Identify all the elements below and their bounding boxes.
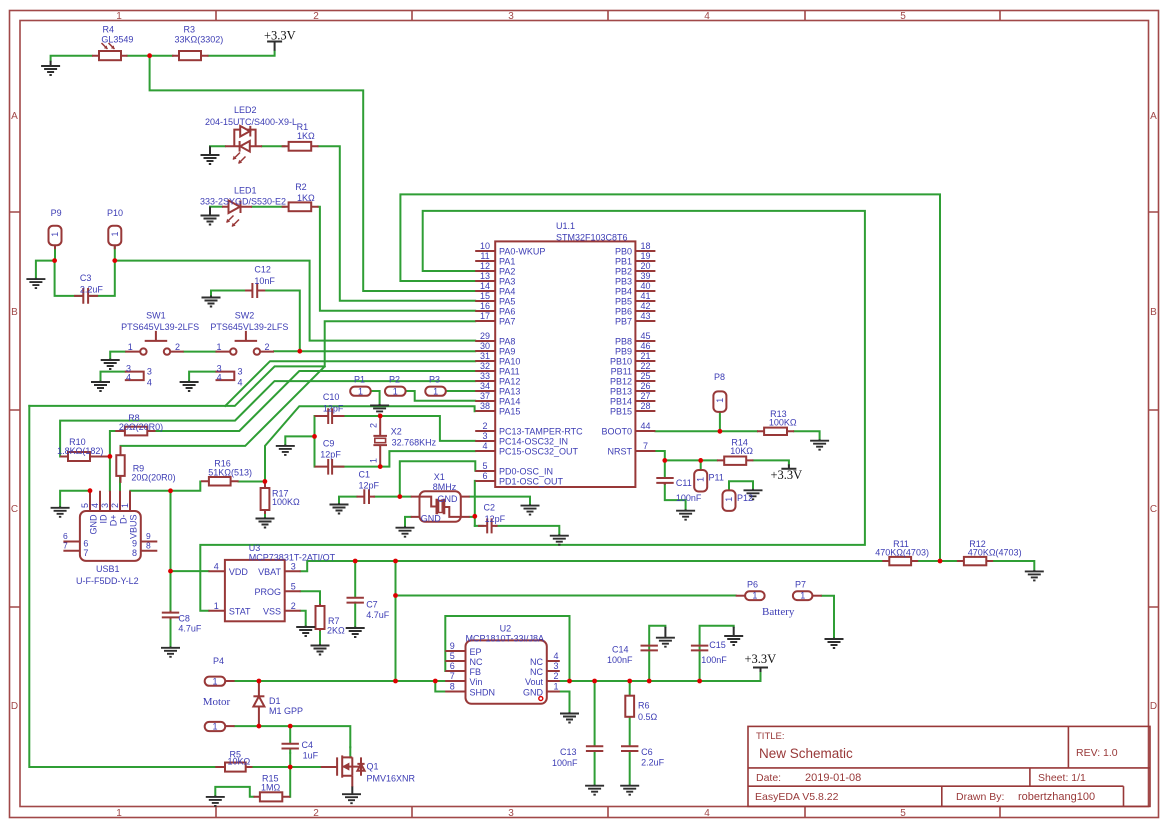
wire Q1 drain riser [349, 747, 351, 757]
wire PA3 wrap to R11 R12 junction [400, 194, 940, 561]
svg-text:8MHz: 8MHz [433, 482, 457, 492]
svg-text:P1: P1 [354, 375, 365, 385]
resistor R15 [254, 792, 291, 801]
wire LED2 ground side [210, 145, 225, 147]
svg-text:C11: C11 [676, 478, 692, 488]
wire P10 to PA8 [115, 261, 475, 341]
svg-text:PA7: PA7 [499, 317, 515, 327]
svg-text:U1.1: U1.1 [556, 221, 575, 231]
resistor R5 [215, 763, 252, 772]
svg-text:100nF: 100nF [607, 655, 633, 665]
frame column numbers top [116, 11, 906, 22]
svg-text:+3.3V: +3.3V [771, 468, 803, 482]
svg-text:1: 1 [116, 11, 122, 22]
wire LED2 to R1 [262, 145, 285, 147]
wire USB VBUS to U3 VDD C8 [130, 491, 170, 613]
wire USB GND pin to ground [60, 491, 90, 507]
wire P1 to ground [371, 391, 380, 405]
wire net PA7 fan [29, 321, 475, 406]
svg-text:20Ω(20R0): 20Ω(20R0) [131, 473, 175, 483]
svg-text:PB2: PB2 [615, 267, 632, 277]
connector P2 [385, 387, 406, 396]
svg-text:1: 1 [752, 591, 757, 601]
op-amp U1 STM32F103C8T6 body [495, 221, 635, 487]
wire C1 left ground [339, 497, 357, 504]
wire LED1 ground side [210, 206, 222, 208]
resistor R2 [282, 202, 319, 211]
svg-text:7: 7 [83, 548, 88, 558]
svg-text:TITLE:: TITLE: [756, 731, 785, 742]
wire R6 to C6 [629, 717, 631, 745]
svg-text:11: 11 [480, 251, 489, 261]
svg-text:PTS645VL39-2LFS: PTS645VL39-2LFS [121, 322, 199, 332]
svg-text:PA13: PA13 [499, 387, 520, 397]
svg-text:30: 30 [480, 341, 490, 351]
svg-text:PB15: PB15 [610, 407, 632, 417]
svg-text:1KΩ: 1KΩ [297, 193, 315, 203]
labels U2 area [450, 580, 806, 768]
connector P1 [350, 387, 371, 396]
svg-text:4: 4 [214, 561, 219, 571]
wire C6 bottom to ground [629, 752, 631, 786]
wire C9 net X2 pin1 to PC15 [332, 451, 475, 467]
wire C10 net X2 pin2 to PC14 [332, 416, 475, 441]
svg-text:6: 6 [83, 539, 88, 549]
power +3.3V right NRST [771, 464, 803, 482]
svg-text:PA15: PA15 [499, 407, 520, 417]
wire P6 battery tap [396, 595, 736, 597]
svg-text:51KΩ(513): 51KΩ(513) [208, 467, 252, 477]
wire C14 top to ground [649, 626, 665, 681]
rotated USB pin names [89, 514, 139, 539]
svg-text:Drawn By:: Drawn By: [956, 791, 1004, 803]
svg-text:REV: 1.0: REV: 1.0 [1076, 747, 1118, 759]
svg-text:R4: R4 [103, 25, 115, 35]
svg-text:4: 4 [217, 373, 222, 383]
svg-text:SW2: SW2 [235, 310, 255, 320]
svg-text:1uF: 1uF [303, 751, 319, 761]
svg-text:D1: D1 [269, 696, 281, 706]
svg-text:470KΩ(4703): 470KΩ(4703) [968, 548, 1022, 558]
svg-text:204-15UTC/S400-X9-L: 204-15UTC/S400-X9-L [205, 117, 297, 127]
wire R17 bottom to ground [264, 510, 266, 518]
svg-text:Vout: Vout [525, 677, 544, 687]
svg-text:2: 2 [482, 421, 487, 431]
svg-text:1: 1 [358, 386, 363, 396]
svg-text:1MΩ: 1MΩ [261, 782, 281, 792]
svg-text:P6: P6 [747, 580, 758, 590]
svg-text:C15: C15 [709, 640, 726, 650]
svg-text:1: 1 [554, 682, 559, 692]
IC U2 MCP1810 body [445, 640, 560, 703]
svg-text:2: 2 [175, 342, 180, 352]
connector P9 [49, 226, 62, 250]
svg-text:B: B [1150, 307, 1157, 318]
svg-text:PB12: PB12 [610, 377, 632, 387]
resistor R10 [60, 452, 110, 461]
svg-text:10nF: 10nF [254, 276, 275, 286]
wire LDR junction down to PA4 [150, 56, 476, 291]
crystal X2 [373, 416, 387, 467]
svg-text:NC: NC [470, 657, 483, 667]
svg-text:New Schematic: New Schematic [759, 746, 853, 761]
svg-text:4: 4 [704, 808, 710, 819]
rotated USB pin numbers [80, 503, 130, 508]
svg-text:X2: X2 [391, 426, 402, 436]
resistor R1 [282, 142, 319, 151]
svg-text:PB6: PB6 [615, 307, 632, 317]
wire C1 right to X1 left and PD0 [375, 461, 476, 496]
svg-text:NC: NC [530, 667, 543, 677]
svg-text:PA10: PA10 [499, 357, 520, 367]
svg-text:PA3: PA3 [499, 277, 515, 287]
svg-text:8: 8 [132, 548, 137, 558]
labels USB and U3 [63, 531, 390, 636]
resistor R4 photoresistor [92, 43, 128, 60]
svg-text:Q1: Q1 [367, 761, 379, 771]
svg-text:PB8: PB8 [615, 337, 632, 347]
svg-text:27: 27 [640, 391, 650, 401]
wire R5 right to Q1 gate [253, 766, 321, 768]
svg-text:1KΩ: 1KΩ [297, 131, 315, 141]
title block [748, 726, 1150, 806]
resistor R16 [201, 477, 239, 486]
connector P7 [793, 591, 822, 600]
resistor R6 [625, 696, 634, 717]
power +3.3V top left [264, 29, 296, 51]
svg-text:STM32F103C8T6: STM32F103C8T6 [556, 233, 628, 243]
capacitor C1 [357, 489, 376, 504]
svg-text:A: A [11, 111, 18, 122]
svg-text:C4: C4 [302, 740, 314, 750]
svg-text:4: 4 [554, 651, 559, 661]
svg-text:6: 6 [63, 531, 68, 541]
svg-text:P10: P10 [107, 208, 123, 218]
svg-text:C10: C10 [323, 392, 340, 402]
svg-text:2: 2 [369, 423, 379, 428]
svg-text:12pF: 12pF [323, 404, 344, 414]
svg-text:U-F-F5DD-Y-L2: U-F-F5DD-Y-L2 [76, 576, 139, 586]
svg-text:ID: ID [99, 514, 109, 524]
svg-text:D: D [1150, 701, 1157, 712]
svg-text:1: 1 [212, 722, 217, 732]
svg-text:32: 32 [480, 361, 490, 371]
svg-text:34: 34 [480, 381, 490, 391]
svg-text:1: 1 [800, 591, 805, 601]
svg-text:P11: P11 [709, 472, 724, 482]
svg-text:C: C [1150, 504, 1157, 515]
svg-text:100KΩ: 100KΩ [272, 497, 300, 507]
capacitor C12 [245, 283, 265, 298]
capacitor C7 [347, 598, 364, 603]
svg-text:2.2uF: 2.2uF [80, 284, 104, 294]
svg-text:5: 5 [450, 651, 455, 661]
svg-text:NRST: NRST [608, 447, 633, 457]
svg-text:2: 2 [313, 11, 319, 22]
svg-text:C14: C14 [612, 644, 629, 654]
svg-text:A: A [1150, 111, 1157, 122]
wire C10 C9 left side with ground tap [285, 416, 314, 467]
labels top left [51, 25, 315, 388]
resistor R12 [957, 557, 993, 565]
resistor R3 [172, 51, 209, 60]
wire R14 right to +3.3V [753, 460, 789, 464]
svg-text:2.2uF: 2.2uF [641, 757, 665, 767]
capacitor C15 [691, 646, 708, 651]
svg-text:2: 2 [313, 808, 319, 819]
svg-text:2: 2 [265, 342, 270, 352]
wire U3 VBAT up to divider rail [301, 561, 1035, 571]
wire P8 stub down [719, 412, 721, 431]
svg-text:100nF: 100nF [701, 655, 727, 665]
svg-text:+3.3V: +3.3V [745, 652, 777, 666]
svg-text:D: D [11, 701, 18, 712]
LED LED2 dual [225, 126, 262, 164]
wire R16 right to R17 junction [239, 481, 266, 483]
svg-text:PA6: PA6 [499, 307, 515, 317]
wire SW1 pins34 to ground [101, 372, 125, 381]
svg-text:P12: P12 [737, 493, 753, 503]
wire R8 left down to USB D+ [110, 431, 115, 491]
wire C13 bottom to ground [594, 752, 596, 786]
svg-text:31: 31 [480, 351, 490, 361]
LED LED1 [222, 200, 252, 226]
svg-text:SW1: SW1 [146, 310, 166, 320]
labels bottom left [213, 656, 416, 793]
svg-text:VBUS: VBUS [129, 515, 139, 540]
svg-text:PA2: PA2 [499, 267, 515, 277]
svg-text:13: 13 [480, 271, 490, 281]
svg-text:41: 41 [640, 291, 650, 301]
wire C3 right to P10 [91, 245, 115, 296]
svg-text:2019-01-08: 2019-01-08 [805, 772, 861, 784]
wire P11 stub up [700, 460, 702, 470]
capacitor C14 [641, 646, 658, 651]
wire SW1 pin1 to ground [110, 352, 125, 359]
svg-text:22: 22 [640, 361, 650, 371]
connector P5 [205, 722, 235, 731]
frame row ticks left [10, 212, 21, 607]
svg-text:D-: D- [119, 515, 129, 525]
wire R4 to R3 junction net [128, 55, 173, 57]
resistor R17 [261, 482, 270, 515]
svg-text:1: 1 [433, 386, 438, 396]
svg-text:VDD: VDD [229, 567, 249, 577]
wire U3 VSS to ground [301, 611, 306, 626]
wire X1 bottom left pin to ground [405, 517, 411, 527]
wire P7 to ground [822, 596, 834, 638]
svg-text:C6: C6 [641, 747, 653, 757]
svg-text:Sheet: 1/1: Sheet: 1/1 [1038, 772, 1086, 784]
svg-text:PD1-OSC_OUT: PD1-OSC_OUT [499, 477, 564, 487]
capacitor C10 [315, 408, 345, 424]
crystal X1 8MHz [411, 491, 470, 522]
svg-text:EP: EP [470, 647, 482, 657]
wire C12 left to ground [211, 291, 252, 297]
capacitor C3 [74, 288, 98, 304]
wire R1 to PA5 [319, 146, 476, 300]
wire U2 Vout to +3.3V rail [560, 672, 761, 681]
wire C11 riser [664, 460, 666, 477]
svg-text:2: 2 [291, 601, 296, 611]
wire net PA10 fan diagonal [225, 361, 475, 406]
svg-text:9: 9 [146, 531, 151, 541]
switch SW1 [125, 331, 184, 355]
svg-text:VBAT: VBAT [258, 567, 281, 577]
svg-text:6: 6 [482, 471, 487, 481]
svg-text:10: 10 [480, 241, 490, 251]
title block text [755, 731, 1118, 803]
labels right side [676, 372, 1022, 558]
svg-text:1: 1 [715, 398, 725, 403]
svg-text:12pF: 12pF [320, 449, 341, 459]
wire U2 GND to ground [560, 692, 570, 713]
wire R16 left to VBUS riser [171, 482, 201, 491]
svg-text:4: 4 [147, 378, 152, 388]
svg-text:PA9: PA9 [499, 347, 515, 357]
svg-text:32.768KHz: 32.768KHz [392, 438, 437, 448]
svg-text:1: 1 [50, 232, 60, 237]
resistor R7 [316, 604, 325, 631]
svg-text:B: B [11, 307, 18, 318]
svg-text:0.5Ω: 0.5Ω [638, 712, 658, 722]
svg-text:12pF: 12pF [485, 514, 506, 524]
svg-text:17: 17 [480, 311, 490, 321]
svg-text:3: 3 [508, 808, 514, 819]
svg-text:10KΩ: 10KΩ [228, 757, 251, 767]
connector P3 [425, 387, 446, 396]
svg-text:M1 GPP: M1 GPP [269, 706, 303, 716]
frame column numbers bottom [116, 808, 906, 819]
ground stems [36, 61, 1034, 797]
switch SW1 pins 3 4 [125, 372, 144, 381]
svg-text:7: 7 [63, 540, 68, 550]
wire net R9 fan diagonal [121, 366, 325, 446]
svg-text:LED1: LED1 [234, 186, 257, 196]
resistor R8 [115, 427, 155, 436]
svg-text:45: 45 [640, 331, 650, 341]
svg-text:40: 40 [640, 281, 650, 291]
wire C13 riser [594, 681, 596, 745]
svg-text:P4: P4 [213, 656, 224, 666]
U1 left pin names [499, 247, 583, 487]
wire SW2 pin2 to PA9 [274, 350, 475, 352]
svg-text:46: 46 [640, 341, 650, 351]
svg-text:PD0-OSC_IN: PD0-OSC_IN [499, 467, 553, 477]
svg-text:PB14: PB14 [610, 397, 632, 407]
resistor R13 [757, 428, 794, 435]
svg-text:18: 18 [640, 241, 650, 251]
capacitor C11 [656, 478, 673, 485]
wire R2 to PA6 [319, 207, 476, 311]
svg-text:4: 4 [126, 373, 131, 383]
wire P9 to ground and C3 [36, 245, 82, 296]
svg-text:1: 1 [128, 342, 133, 352]
frame column ticks bottom [216, 807, 1000, 818]
wire P4 Vin net [235, 680, 446, 682]
wire R13 right to ground [794, 431, 820, 439]
wire R7 bottom to ground [319, 629, 321, 645]
wire D1 anode to P5 net [235, 726, 351, 747]
svg-text:33: 33 [480, 371, 490, 381]
ground symbols [41, 66, 60, 75]
switch SW2 [216, 331, 275, 355]
wire net PA12 fan R10 [60, 381, 475, 456]
svg-text:5: 5 [291, 581, 296, 591]
svg-text:VSS: VSS [263, 606, 281, 616]
svg-text:C3: C3 [80, 273, 92, 283]
svg-text:43: 43 [640, 311, 650, 321]
U1 left pin numbers [480, 241, 490, 481]
svg-text:5: 5 [80, 503, 90, 508]
svg-text:42: 42 [640, 301, 650, 311]
svg-text:Vin: Vin [470, 677, 483, 687]
wire R15 left jog to ground [215, 787, 253, 797]
wire U3 VDD net [171, 570, 209, 572]
switch SW2 pins 3 4 [216, 372, 235, 381]
svg-text:25: 25 [640, 371, 650, 381]
capacitor C6 [621, 746, 638, 751]
svg-text:7: 7 [643, 441, 648, 451]
svg-text:C12: C12 [254, 265, 271, 275]
svg-text:PB4: PB4 [615, 287, 632, 297]
wire C8 bottom to ground [170, 618, 172, 647]
svg-text:12: 12 [480, 261, 490, 271]
resistor R14 [717, 457, 754, 465]
svg-text:1: 1 [393, 386, 398, 396]
connector P6 [736, 591, 765, 600]
svg-text:PB13: PB13 [610, 387, 632, 397]
svg-text:333-2SYGD/S530-E2: 333-2SYGD/S530-E2 [200, 197, 286, 207]
svg-text:37: 37 [480, 391, 490, 401]
wire NRST to R14 [655, 451, 716, 460]
capacitor C4 [282, 726, 299, 753]
svg-text:9: 9 [450, 641, 455, 651]
wire U3 PROG to R7 [301, 591, 320, 605]
svg-text:4: 4 [238, 378, 243, 388]
svg-text:SHDN: SHDN [470, 687, 496, 697]
svg-text:6: 6 [450, 661, 455, 671]
svg-text:100KΩ: 100KΩ [769, 417, 797, 427]
capacitor C2 [478, 518, 498, 533]
svg-text:P9: P9 [51, 208, 62, 218]
svg-text:26: 26 [640, 381, 650, 391]
svg-text:5: 5 [482, 461, 487, 471]
wire C11 bottom to ground [665, 485, 686, 510]
svg-text:GND: GND [523, 687, 544, 697]
svg-text:1: 1 [116, 808, 122, 819]
U1 right pin numbers [640, 241, 650, 451]
svg-text:4: 4 [704, 11, 710, 22]
svg-text:C8: C8 [178, 613, 190, 623]
svg-text:STAT: STAT [229, 606, 251, 616]
rotated crystal X2 pin numbers [369, 423, 379, 463]
svg-text:1: 1 [724, 497, 734, 502]
IC U3 MCP73831 body [208, 560, 300, 621]
connector P11 [694, 470, 707, 492]
svg-text:PA5: PA5 [499, 297, 515, 307]
svg-text:C9: C9 [323, 438, 335, 448]
wire P2 to PA14 [406, 391, 476, 401]
svg-text:P8: P8 [714, 372, 725, 382]
svg-text:P3: P3 [429, 375, 440, 385]
wire PA2 wrap to U3 STAT [200, 211, 865, 611]
svg-text:7: 7 [450, 671, 455, 681]
svg-text:U2: U2 [500, 623, 512, 633]
svg-text:R6: R6 [638, 700, 650, 710]
wire C7 bottom to ground [354, 603, 356, 628]
connector P4 [205, 677, 235, 686]
